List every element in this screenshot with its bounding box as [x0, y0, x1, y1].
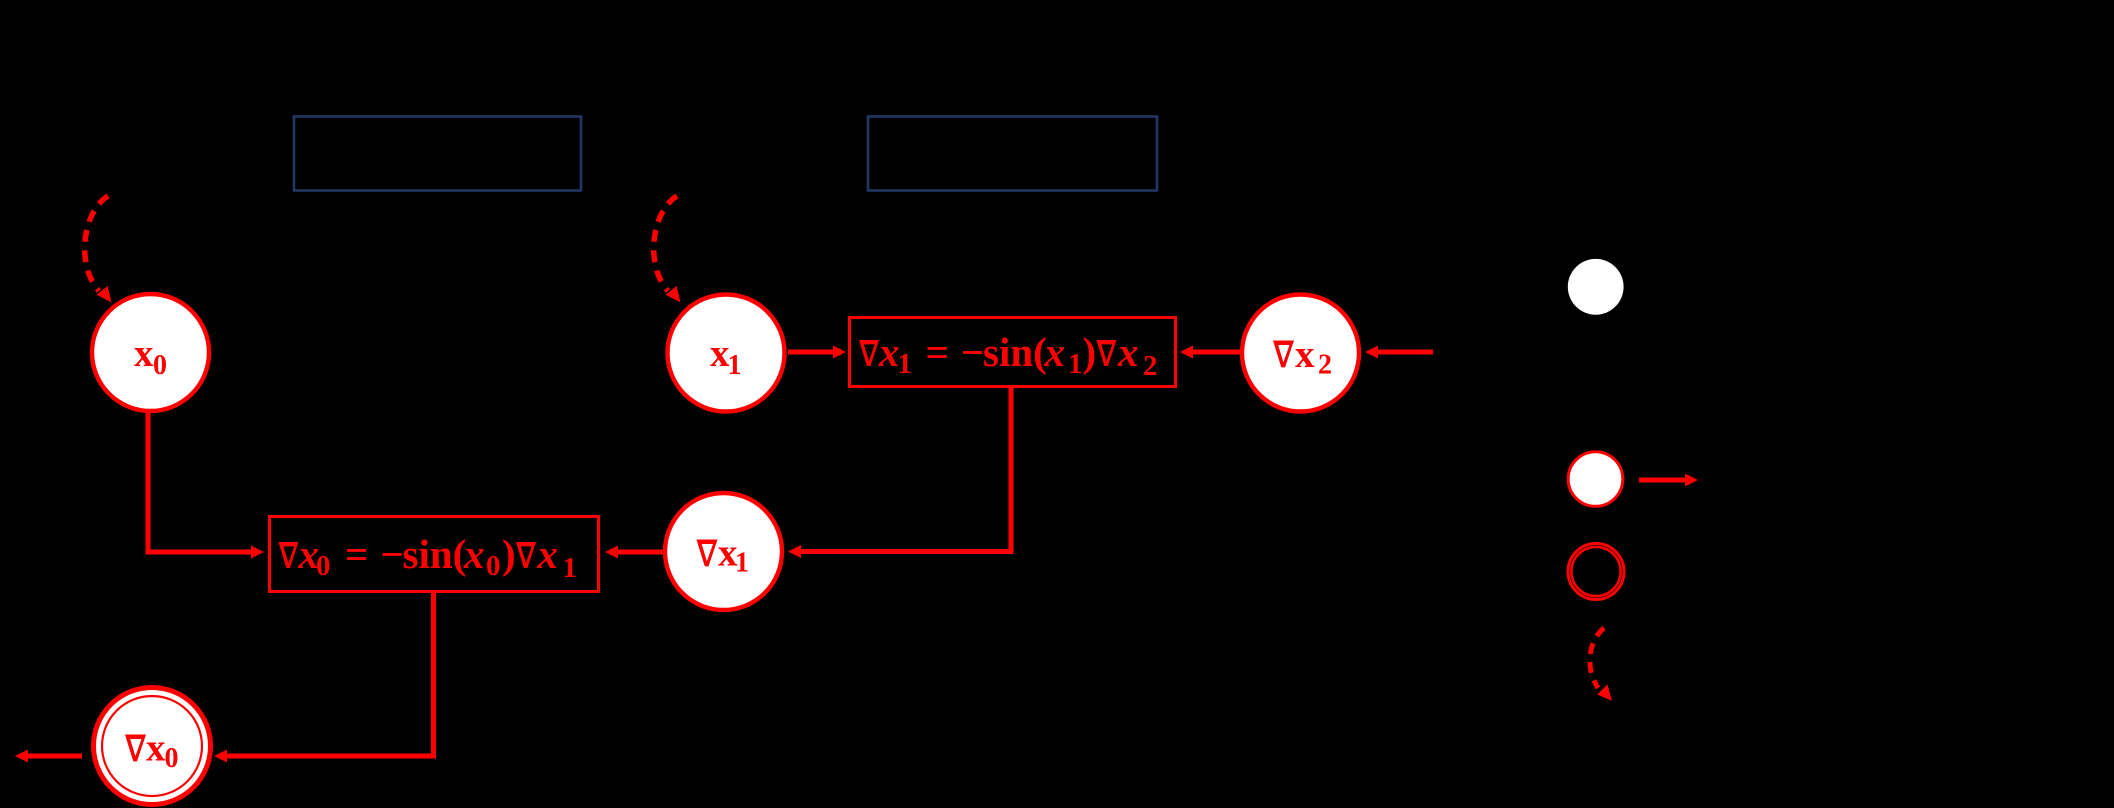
dashed seed arrow into node x0: [85, 196, 108, 291]
svg-text:0: 0: [316, 550, 331, 582]
svg-text:x: x: [1044, 329, 1066, 375]
blue box: forward pass label 2: [868, 117, 1157, 191]
svg-text:sin(: sin(: [983, 329, 1047, 375]
gradient formula box 2: [270, 517, 599, 592]
svg-text:x: x: [878, 329, 900, 375]
node grad x0 (output, double circle): [94, 688, 211, 805]
svg-text:0: 0: [486, 550, 501, 582]
wire x0 down then right into formula box 2: [148, 411, 252, 552]
formula grad x0 = -sin(x0) grad x1: [279, 531, 578, 584]
svg-text:0: 0: [165, 743, 179, 774]
svg-text:): ): [502, 531, 516, 577]
wire grad x1 left into formula box 2: [617, 550, 663, 555]
svg-text:x: x: [537, 531, 559, 577]
node grad x1: [665, 493, 782, 610]
legend: known value node (white filled circle): [1568, 259, 1624, 315]
wire formula box 2 down then left into grad x0: [226, 592, 434, 756]
svg-text:x: x: [134, 332, 154, 375]
svg-text:1: 1: [1068, 348, 1083, 380]
formula grad x1 = -sin(x1) grad x2: [859, 329, 1158, 382]
svg-text:−: −: [961, 329, 984, 375]
svg-text:2: 2: [1318, 350, 1332, 381]
svg-text:1: 1: [728, 350, 742, 381]
svg-text:−: −: [381, 531, 404, 577]
node grad x2: [1242, 295, 1359, 412]
svg-text:2: 2: [1143, 350, 1158, 382]
svg-text:1: 1: [563, 552, 578, 584]
svg-text:0: 0: [153, 350, 167, 381]
svg-text:x: x: [463, 531, 485, 577]
wire grad x0 out to the left: [27, 754, 82, 759]
svg-text:1: 1: [735, 548, 749, 579]
gradient formula box 1: [850, 318, 1176, 387]
legend: arrow sample: [1639, 478, 1686, 483]
svg-text:x: x: [1295, 333, 1315, 376]
dashed seed arrow into node x1: [654, 196, 677, 291]
svg-text:sin(: sin(: [403, 531, 467, 577]
blue box: forward pass label 1: [294, 117, 581, 191]
svg-text:1: 1: [898, 348, 913, 380]
node x0: [92, 294, 209, 411]
wire x1 right into formula box 1: [788, 350, 834, 355]
node x1: [668, 295, 785, 412]
wire grad x2 left into formula box 1: [1192, 350, 1240, 355]
svg-text:x: x: [1117, 329, 1139, 375]
svg-text:=: =: [926, 329, 949, 375]
svg-text:=: =: [345, 531, 368, 577]
svg-text:): ): [1083, 329, 1097, 375]
legend: output node (double circle): [1568, 544, 1624, 600]
wire incoming from right into grad x2: [1377, 350, 1433, 355]
legend: dashed seed arrow sample: [1590, 628, 1604, 688]
svg-text:x: x: [146, 727, 166, 770]
wire formula box 1 down then left into grad x1: [800, 388, 1011, 552]
legend: computed node (red circle): [1568, 452, 1623, 507]
